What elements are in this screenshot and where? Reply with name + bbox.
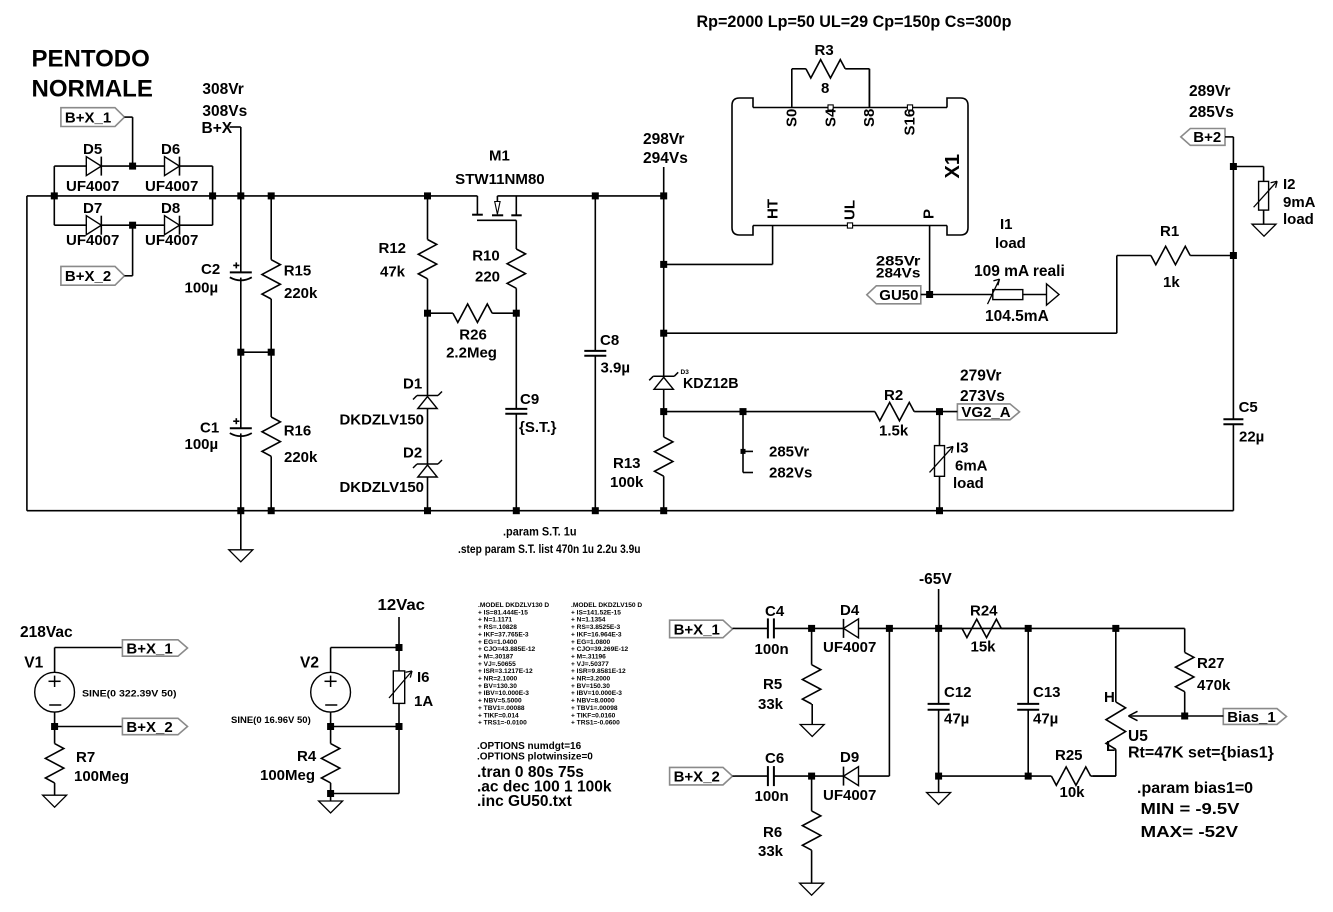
node D3-R2 bbox=[660, 408, 667, 415]
resistor R3 bbox=[792, 42, 870, 108]
wire U5 bottom bbox=[1093, 775, 1116, 777]
voltage source V1 bbox=[20, 624, 177, 727]
svg-text:285Vr: 285Vr bbox=[769, 444, 809, 461]
svg-text:D2: D2 bbox=[403, 445, 422, 462]
svg-text:104.5mA: 104.5mA bbox=[985, 308, 1049, 325]
svg-text:S8: S8 bbox=[861, 109, 878, 127]
svg-text:47µ: 47µ bbox=[944, 711, 969, 728]
current source I1 bbox=[930, 216, 1065, 325]
net label 298Vr bbox=[643, 131, 688, 196]
svg-text:R4: R4 bbox=[297, 748, 317, 765]
svg-text:load: load bbox=[1283, 211, 1314, 228]
svg-text:SINE(0 16.96V 50): SINE(0 16.96V 50) bbox=[231, 715, 311, 726]
svg-text:12Vac: 12Vac bbox=[378, 597, 426, 614]
directive inc bbox=[477, 793, 572, 810]
ground R6 bbox=[800, 883, 824, 895]
svg-text:P: P bbox=[920, 209, 937, 219]
flag B+X_2 bias bbox=[670, 767, 735, 785]
svg-text:2.2Meg: 2.2Meg bbox=[446, 344, 497, 361]
svg-text:R26: R26 bbox=[459, 326, 487, 343]
capacitor C5 bbox=[1223, 256, 1264, 511]
svg-text:+ IBV=10.000E-3: + IBV=10.000E-3 bbox=[478, 690, 529, 697]
svg-text:KDZ12B: KDZ12B bbox=[683, 376, 739, 392]
svg-text:B+X_1: B+X_1 bbox=[126, 640, 172, 657]
directive step param bbox=[458, 544, 641, 556]
tube pin S0 bbox=[784, 69, 801, 127]
svg-text:+ ISR=9.8581E-12: + ISR=9.8581E-12 bbox=[571, 668, 626, 675]
svg-text:S0: S0 bbox=[784, 109, 801, 127]
zener D2 bbox=[340, 437, 443, 511]
svg-text:294Vs: 294Vs bbox=[643, 150, 688, 167]
node B+2-I2 bbox=[1230, 163, 1237, 170]
svg-text:UL: UL bbox=[841, 200, 858, 220]
flag Bias_1 bbox=[1185, 709, 1287, 726]
directive tran bbox=[477, 764, 584, 781]
svg-text:22µ: 22µ bbox=[1239, 429, 1264, 446]
ground R5 bbox=[800, 704, 824, 737]
svg-text:D5: D5 bbox=[83, 141, 102, 158]
node C4-R5 bbox=[808, 625, 815, 632]
svg-text:SINE(0 322.39V 50): SINE(0 322.39V 50) bbox=[82, 689, 177, 700]
tube pin HT bbox=[765, 199, 782, 219]
node rail-D2 bbox=[424, 507, 431, 514]
svg-text:10k: 10k bbox=[1060, 784, 1086, 801]
svg-text:load: load bbox=[995, 235, 1026, 252]
node V2-R4 bbox=[327, 723, 402, 730]
svg-text:C4: C4 bbox=[765, 603, 785, 620]
node bus-298 bbox=[660, 192, 667, 199]
wire source bus bbox=[497, 195, 663, 197]
svg-text:C8: C8 bbox=[600, 332, 619, 349]
svg-text:M1: M1 bbox=[489, 148, 510, 165]
svg-text:.OPTIONS plotwinsize=0: .OPTIONS plotwinsize=0 bbox=[477, 752, 593, 763]
svg-text:D9: D9 bbox=[840, 749, 859, 766]
svg-text:B+2: B+2 bbox=[1193, 129, 1221, 146]
svg-text:+ IBV=10.000E-3: + IBV=10.000E-3 bbox=[571, 690, 622, 697]
svg-text:R6: R6 bbox=[763, 824, 782, 841]
svg-text:R7: R7 bbox=[76, 749, 95, 766]
ground I2 bbox=[1252, 224, 1276, 236]
svg-text:UF4007: UF4007 bbox=[823, 639, 876, 656]
svg-text:+ N=1.1171: + N=1.1171 bbox=[478, 617, 512, 624]
svg-text:DKDZLV150: DKDZLV150 bbox=[340, 412, 425, 429]
svg-text:+ ISR=3.1217E-12: + ISR=3.1217E-12 bbox=[478, 668, 533, 675]
directive model DKDZLV130 bbox=[478, 602, 549, 727]
svg-text:.OPTIONS numdgt=16: .OPTIONS numdgt=16 bbox=[477, 741, 582, 752]
svg-text:15k: 15k bbox=[971, 639, 997, 656]
node R27-Bias bbox=[1181, 713, 1188, 720]
svg-text:.MODEL DKDZLV130 D: .MODEL DKDZLV130 D bbox=[478, 602, 549, 609]
svg-text:33k: 33k bbox=[758, 843, 784, 860]
svg-text:D6: D6 bbox=[161, 141, 180, 158]
svg-text:+ N=1.1354: + N=1.1354 bbox=[571, 617, 606, 624]
svg-text:3.9µ: 3.9µ bbox=[601, 360, 631, 377]
tube pin S16 bbox=[902, 105, 919, 136]
capacitor C1 bbox=[185, 352, 252, 511]
svg-text:+ BV=130.30: + BV=130.30 bbox=[478, 683, 517, 690]
node D7-D8 junction bbox=[129, 222, 136, 229]
flag GU50 bbox=[867, 286, 930, 304]
resistor R10 bbox=[472, 248, 525, 314]
svg-text:+ M=.30187: + M=.30187 bbox=[478, 653, 514, 660]
node bus-R15 bbox=[268, 192, 275, 199]
svg-text:I1: I1 bbox=[1000, 216, 1013, 233]
capacitor C2 bbox=[185, 196, 252, 352]
svg-text:+ TRS1=-0.0600: + TRS1=-0.0600 bbox=[571, 720, 620, 727]
svg-text:220k: 220k bbox=[284, 285, 318, 302]
svg-text:C12: C12 bbox=[944, 684, 972, 701]
node 285Vr tap bbox=[740, 408, 813, 481]
node rail-R16 bbox=[268, 507, 275, 514]
svg-text:6mA: 6mA bbox=[955, 458, 988, 475]
svg-text:100n: 100n bbox=[755, 641, 789, 658]
svg-text:470k: 470k bbox=[1197, 677, 1231, 694]
flag B+X_1 bias bbox=[670, 620, 735, 638]
svg-text:218Vac: 218Vac bbox=[20, 624, 73, 641]
svg-text:load: load bbox=[953, 475, 984, 492]
svg-text:B+X_1: B+X_1 bbox=[65, 109, 111, 126]
resistor R24 bbox=[939, 603, 1029, 656]
text MIN bbox=[1141, 801, 1240, 818]
svg-text:R1: R1 bbox=[1160, 223, 1179, 240]
capacitor C12 bbox=[928, 628, 972, 776]
svg-text:R13: R13 bbox=[613, 455, 641, 472]
wire left rail and bottom rail bbox=[27, 196, 1234, 511]
svg-text:UF4007: UF4007 bbox=[66, 232, 119, 249]
svg-text:NORMALE: NORMALE bbox=[32, 76, 153, 103]
svg-text:285Vs: 285Vs bbox=[1189, 104, 1234, 121]
svg-text:D7: D7 bbox=[83, 200, 102, 217]
svg-text:1A: 1A bbox=[414, 693, 433, 710]
svg-text:+ BV=150.30: + BV=150.30 bbox=[571, 683, 610, 690]
capacitor C6 bbox=[735, 750, 812, 805]
svg-text:H: H bbox=[1104, 689, 1115, 706]
node C12 bottom bbox=[935, 773, 942, 780]
svg-text:289Vr: 289Vr bbox=[1189, 83, 1230, 100]
wire -65V row right bbox=[939, 627, 1185, 629]
node rail-I3 bbox=[936, 507, 943, 514]
svg-text:+ IKF=16.964E-3: + IKF=16.964E-3 bbox=[571, 631, 622, 638]
svg-text:33k: 33k bbox=[758, 696, 784, 713]
tube X1 body bbox=[732, 98, 968, 235]
svg-text:B+X_2: B+X_2 bbox=[674, 768, 720, 785]
svg-text:L: L bbox=[1106, 738, 1115, 755]
resistor R27 bbox=[1176, 628, 1232, 716]
ground R7 bbox=[43, 783, 67, 807]
svg-text:+ VJ=.50655: + VJ=.50655 bbox=[478, 661, 516, 668]
node D5-D6 junction bbox=[129, 163, 136, 170]
resistor R16 bbox=[262, 352, 318, 511]
node bridge left bbox=[51, 166, 58, 225]
svg-text:47k: 47k bbox=[380, 264, 406, 281]
svg-text:Bias_1: Bias_1 bbox=[1227, 709, 1275, 726]
svg-text:C9: C9 bbox=[520, 391, 539, 408]
node V2-I6 top bbox=[396, 644, 403, 651]
current source I3 bbox=[930, 412, 988, 511]
svg-text:I6: I6 bbox=[417, 669, 430, 686]
diode D4 bbox=[812, 602, 890, 656]
flag B+X_2 V1 bbox=[122, 718, 187, 736]
tube pin UL bbox=[841, 200, 858, 228]
svg-text:109 mA reali: 109 mA reali bbox=[974, 263, 1065, 280]
flag B+2 bbox=[1181, 83, 1234, 146]
svg-text:U5: U5 bbox=[1128, 728, 1148, 745]
node C13 bottom bbox=[939, 773, 1032, 780]
resistor R25 bbox=[1028, 747, 1116, 801]
svg-text:282Vs: 282Vs bbox=[769, 465, 812, 482]
svg-text:V2: V2 bbox=[300, 655, 319, 672]
directive param bias1 bbox=[1137, 780, 1253, 797]
svg-text:C1: C1 bbox=[200, 420, 219, 437]
ground main bbox=[229, 511, 253, 562]
svg-text:VG2_A: VG2_A bbox=[961, 404, 1010, 421]
svg-text:1k: 1k bbox=[1163, 274, 1180, 291]
svg-text:PENTODO: PENTODO bbox=[32, 46, 150, 73]
svg-text:+ NR=2.1000: + NR=2.1000 bbox=[478, 676, 518, 683]
wire B+2 column bbox=[1232, 137, 1234, 256]
capacitor C13 bbox=[1017, 628, 1060, 776]
svg-text:+ NBV=5.5000: + NBV=5.5000 bbox=[478, 698, 522, 705]
svg-text:R27: R27 bbox=[1197, 655, 1225, 672]
svg-text:MAX= -52V: MAX= -52V bbox=[1141, 824, 1239, 841]
svg-text:I2: I2 bbox=[1283, 176, 1296, 193]
svg-text:8: 8 bbox=[821, 80, 829, 97]
node rail-C9 bbox=[513, 507, 520, 514]
svg-text:+ EG=1.0400: + EG=1.0400 bbox=[478, 639, 518, 646]
resistor R6 bbox=[758, 776, 821, 883]
capacitor C9 bbox=[505, 313, 556, 511]
svg-text:D3: D3 bbox=[681, 369, 690, 376]
svg-text:S16: S16 bbox=[902, 109, 919, 136]
svg-text:C5: C5 bbox=[1239, 399, 1258, 416]
svg-text:B+X: B+X bbox=[202, 120, 233, 137]
directive model DKDZLV150 bbox=[571, 602, 642, 727]
tube pin S4 bbox=[822, 105, 839, 127]
svg-text:UF4007: UF4007 bbox=[145, 232, 198, 249]
svg-text:298Vr: 298Vr bbox=[643, 131, 684, 148]
resistor R26 bbox=[428, 304, 517, 361]
svg-text:+ IS=81.444E-15: + IS=81.444E-15 bbox=[478, 609, 528, 616]
svg-text:100n: 100n bbox=[755, 788, 789, 805]
resistor R2 bbox=[875, 387, 940, 440]
ground C12 bbox=[927, 776, 951, 804]
svg-text:+ TBV1=.00088: + TBV1=.00088 bbox=[478, 705, 525, 712]
node R4-gnd bbox=[327, 790, 334, 797]
node -65V bbox=[935, 625, 942, 632]
wire VG2 row bbox=[664, 411, 875, 413]
svg-text:Rt=47K set={bias1}: Rt=47K set={bias1} bbox=[1128, 745, 1274, 762]
wire to HT bbox=[660, 196, 772, 268]
net label 285Vr 284Vs bbox=[876, 254, 921, 281]
node R1-C5 bbox=[1230, 252, 1237, 259]
current source I6 bbox=[389, 648, 433, 727]
svg-text:100µ: 100µ bbox=[185, 436, 219, 453]
mosfet M1 bbox=[455, 148, 545, 250]
resistor R4 bbox=[260, 727, 340, 794]
svg-text:+ CJO=43.885E-12: + CJO=43.885E-12 bbox=[478, 646, 536, 653]
svg-text:R2: R2 bbox=[884, 387, 903, 404]
node rail-C1 bbox=[237, 507, 244, 514]
wire I6 down bbox=[331, 727, 399, 794]
svg-text:284Vs: 284Vs bbox=[876, 266, 921, 281]
node D4-D9 bbox=[886, 625, 893, 776]
capacitor C8 bbox=[584, 196, 630, 511]
resistor R5 bbox=[758, 628, 821, 713]
svg-text:+ TBV1=.00098: + TBV1=.00098 bbox=[571, 705, 618, 712]
node U5 top bbox=[1112, 625, 1119, 632]
tube pin S8 bbox=[861, 69, 878, 127]
diode D8 bbox=[133, 200, 213, 249]
svg-text:.step param S.T. list 470n 1u: .step param S.T. list 470n 1u 2.2u 3.9u bbox=[458, 544, 641, 556]
current source I2 bbox=[1233, 167, 1315, 229]
node R12-R26 bbox=[424, 310, 431, 317]
svg-text:UF4007: UF4007 bbox=[145, 178, 198, 195]
svg-text:1.5k: 1.5k bbox=[879, 423, 909, 440]
svg-text:B+X_2: B+X_2 bbox=[126, 719, 172, 736]
node C13 top bbox=[1025, 625, 1032, 632]
svg-text:Rp=2000 Lp=50 UL=29 Cp=150p Cs: Rp=2000 Lp=50 UL=29 Cp=150p Cs=300p bbox=[697, 12, 1012, 31]
svg-text:MIN = -9.5V: MIN = -9.5V bbox=[1141, 801, 1240, 818]
net label B+X bbox=[202, 81, 248, 196]
svg-text:308Vr: 308Vr bbox=[202, 81, 243, 98]
flag VG2_A bbox=[940, 368, 1020, 422]
node C6-R6 bbox=[808, 773, 815, 780]
svg-text:+ TRS1=-0.0100: + TRS1=-0.0100 bbox=[478, 720, 527, 727]
svg-text:100µ: 100µ bbox=[185, 280, 219, 297]
resistor R7 bbox=[45, 727, 129, 786]
wire to -65V bbox=[889, 627, 938, 629]
flag B+X_2 top bbox=[61, 225, 133, 285]
diode D9 bbox=[812, 749, 890, 804]
svg-text:+ TIKF=0.0160: + TIKF=0.0160 bbox=[571, 712, 616, 719]
directive param ST bbox=[503, 527, 577, 539]
svg-text:+ EG=1.0800: + EG=1.0800 bbox=[571, 639, 611, 646]
resistor R12 bbox=[379, 196, 437, 313]
svg-text:+ RS=.10828: + RS=.10828 bbox=[478, 624, 517, 631]
wiper arrow U5 bbox=[1128, 711, 1184, 720]
svg-text:R10: R10 bbox=[472, 248, 500, 265]
svg-text:R3: R3 bbox=[815, 42, 834, 59]
svg-text:100Meg: 100Meg bbox=[74, 768, 129, 785]
flag B+X_1 top bbox=[61, 108, 133, 166]
directive ac bbox=[477, 779, 612, 796]
flag B+X_1 V1 bbox=[122, 640, 187, 658]
svg-text:HT: HT bbox=[765, 199, 782, 219]
svg-text:R12: R12 bbox=[379, 240, 407, 257]
resistor R13 bbox=[610, 412, 673, 511]
svg-text:+ M=.31196: + M=.31196 bbox=[571, 653, 606, 660]
svg-text:+ VJ=.50377: + VJ=.50377 bbox=[571, 661, 609, 668]
diode D5 bbox=[54, 141, 132, 195]
svg-text:R16: R16 bbox=[284, 423, 312, 440]
svg-text:.param bias1=0: .param bias1=0 bbox=[1137, 780, 1253, 797]
node bus-C8 bbox=[592, 192, 599, 199]
voltage source V2 bbox=[231, 648, 399, 727]
svg-text:+ RS=3.8525E-3: + RS=3.8525E-3 bbox=[571, 624, 620, 631]
node bus-C2 bbox=[237, 192, 244, 199]
potentiometer U5 bbox=[1104, 628, 1274, 776]
svg-text:100Meg: 100Meg bbox=[260, 767, 315, 784]
svg-text:R5: R5 bbox=[763, 676, 782, 693]
svg-text:+ IS=141.52E-15: + IS=141.52E-15 bbox=[571, 609, 621, 616]
tube pin P bbox=[920, 209, 937, 295]
svg-text:I3: I3 bbox=[956, 440, 969, 457]
svg-text:B+X_1: B+X_1 bbox=[674, 621, 720, 638]
svg-text:C2: C2 bbox=[201, 261, 220, 278]
net label 12Vac bbox=[378, 597, 426, 648]
node V1-R7 bbox=[51, 723, 122, 730]
svg-text:+ TIKF=0.014: + TIKF=0.014 bbox=[478, 712, 519, 719]
svg-text:220k: 220k bbox=[284, 449, 318, 466]
svg-text:X1: X1 bbox=[942, 154, 964, 178]
svg-text:R15: R15 bbox=[284, 262, 312, 279]
wire main B+X bus bbox=[54, 195, 477, 197]
node mid divider bbox=[237, 349, 274, 356]
svg-text:{S.T.}: {S.T.} bbox=[519, 419, 557, 436]
svg-text:+ CJO=39.269E-12: + CJO=39.269E-12 bbox=[571, 646, 629, 653]
annotation Rp Lp UL Cp Cs bbox=[697, 12, 1012, 31]
diode D6 bbox=[133, 141, 213, 195]
svg-text:308Vs: 308Vs bbox=[202, 103, 247, 120]
node rail-C8 bbox=[592, 507, 599, 514]
ground V2 bbox=[319, 794, 343, 814]
svg-text:UF4007: UF4007 bbox=[823, 787, 876, 804]
wire to R1 bbox=[664, 256, 1117, 334]
capacitor C4 bbox=[735, 603, 812, 658]
diode D7 bbox=[54, 200, 132, 249]
svg-text:+ NBV=8.0000: + NBV=8.0000 bbox=[571, 698, 615, 705]
svg-text:.inc GU50.txt: .inc GU50.txt bbox=[477, 793, 572, 810]
svg-text:.MODEL DKDZLV150 D: .MODEL DKDZLV150 D bbox=[571, 602, 642, 609]
wire down to D3 bbox=[660, 264, 667, 336]
node bus-R12 bbox=[424, 192, 431, 199]
node rail-R13 bbox=[660, 507, 667, 514]
svg-text:UF4007: UF4007 bbox=[66, 178, 119, 195]
svg-text:100k: 100k bbox=[610, 474, 644, 491]
svg-text:279Vr: 279Vr bbox=[960, 368, 1001, 385]
resistor R15 bbox=[262, 196, 318, 352]
svg-text:D8: D8 bbox=[161, 200, 180, 217]
svg-text:220: 220 bbox=[475, 269, 500, 286]
resistor R1 bbox=[1117, 223, 1234, 291]
svg-text:-65V: -65V bbox=[919, 571, 952, 588]
svg-text:D4: D4 bbox=[840, 602, 860, 619]
svg-text:+ NR=3.2000: + NR=3.2000 bbox=[571, 676, 611, 683]
zener D1 bbox=[340, 313, 443, 437]
title bbox=[32, 46, 153, 103]
svg-text:GU50: GU50 bbox=[879, 287, 918, 304]
svg-text:C13: C13 bbox=[1033, 684, 1061, 701]
svg-text:273Vs: 273Vs bbox=[960, 388, 1005, 405]
svg-text:S4: S4 bbox=[822, 108, 839, 127]
svg-text:B+X_2: B+X_2 bbox=[65, 268, 111, 285]
svg-text:STW11NM80: STW11NM80 bbox=[455, 171, 545, 188]
svg-text:9mA: 9mA bbox=[1283, 194, 1316, 211]
text MAX bbox=[1141, 824, 1239, 841]
svg-text:.param S.T. 1u: .param S.T. 1u bbox=[503, 527, 577, 539]
zener D3 KDZ12B bbox=[649, 333, 738, 411]
svg-text:47µ: 47µ bbox=[1033, 711, 1058, 728]
net label -65V bbox=[919, 571, 952, 628]
svg-text:C6: C6 bbox=[765, 750, 784, 767]
svg-text:DKDZLV150: DKDZLV150 bbox=[340, 479, 425, 496]
svg-text:R25: R25 bbox=[1055, 747, 1083, 764]
directive options bbox=[477, 741, 593, 763]
node bridge right bbox=[209, 166, 216, 225]
node R10-R26-C9 bbox=[513, 310, 520, 317]
svg-text:V1: V1 bbox=[24, 655, 43, 672]
svg-text:D1: D1 bbox=[403, 376, 422, 393]
